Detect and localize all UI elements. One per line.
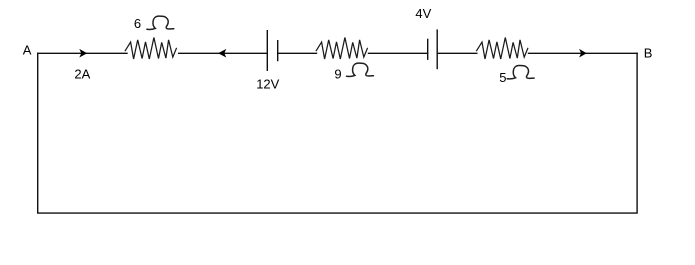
svg-text:12V: 12V	[256, 76, 279, 91]
svg-text:5: 5	[499, 70, 506, 85]
svg-text:9: 9	[334, 66, 341, 81]
svg-text:6: 6	[134, 16, 141, 31]
svg-text:B: B	[644, 46, 653, 61]
svg-text:2A: 2A	[74, 66, 90, 81]
svg-text:A: A	[23, 43, 32, 58]
svg-text:4V: 4V	[415, 6, 431, 21]
